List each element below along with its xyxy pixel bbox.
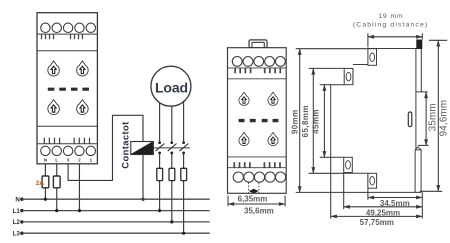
SPD plug-in module indicator 1 — [48, 61, 60, 76]
svg-text:L1: L1 — [13, 208, 21, 215]
front view top comb teeth — [235, 68, 280, 73]
svg-text:L3: L3 — [13, 231, 21, 238]
svg-text:57,75mm: 57,75mm — [360, 218, 394, 227]
front view bottom comb teeth — [234, 162, 280, 167]
SPD upper section divider — [37, 50, 97, 52]
front view indicator 1 — [239, 92, 249, 105]
fuse F1 2A — [42, 176, 49, 188]
SPD plug-in module indicator 4 — [77, 100, 89, 115]
wire contactor coil to bus N — [142, 155, 144, 200]
svg-text:94,6mm: 94,6mm — [439, 100, 450, 137]
front view lower divider — [228, 156, 287, 158]
dimension 45mm — [320, 85, 331, 158]
side view terminal block 1 — [368, 49, 377, 66]
bus L3 — [13, 231, 210, 238]
junction switch3-L3 — [182, 232, 185, 235]
dimension 35mm — [418, 92, 429, 145]
SPD bottom busbar comb teeth — [44, 138, 89, 144]
front view indicator 4 — [268, 132, 278, 145]
DIN latch slot — [408, 112, 412, 127]
SPD bottom terminal shelf line — [37, 143, 97, 145]
bus L1 — [13, 208, 210, 215]
dimension 90mm — [296, 49, 368, 193]
front view bottom terminal circles — [233, 172, 286, 182]
SPD status window dashes — [48, 88, 89, 91]
front view top shelf line — [228, 67, 287, 69]
svg-text:6,35mm: 6,35mm — [238, 195, 268, 204]
pitch marker diamond — [249, 189, 259, 194]
SPD bottom terminal circles — [41, 146, 96, 155]
side view terminal block 3 — [368, 173, 377, 188]
junction coil-N — [141, 198, 144, 201]
svg-text:65,8mm: 65,8mm — [301, 105, 310, 137]
svg-text:N: N — [15, 197, 20, 204]
fuse F3 — [157, 168, 163, 180]
front view top terminal circles — [232, 57, 285, 67]
pitch marker dashed lines — [249, 182, 259, 192]
front view indicator 2 — [268, 92, 278, 105]
wire switch 2 to bus L2 — [171, 153, 173, 222]
side view terminal block 2 — [344, 68, 353, 84]
side view outline — [331, 48, 428, 193]
fuse F2 2A — [53, 176, 60, 188]
contactor coil K1 — [131, 142, 154, 155]
SPD lower section divider — [37, 125, 97, 127]
dimension 35,6mm — [228, 196, 285, 207]
svg-text:Contactot: Contactot — [120, 121, 131, 168]
fuse F4 — [169, 168, 175, 180]
wire N terminal to bus N — [44, 164, 46, 199]
svg-text:90mm: 90mm — [290, 109, 299, 134]
svg-text:L: L — [55, 157, 58, 162]
dimension 65,8mm — [309, 68, 345, 173]
DIN rail clamp (black) — [416, 40, 422, 49]
wire terminal 2 to bus L1 — [78, 164, 80, 211]
wire load phase 2 — [171, 106, 173, 142]
side view terminal block 4 — [344, 157, 353, 172]
svg-text:2A: 2A — [36, 180, 45, 187]
front view status dashes — [239, 119, 279, 122]
svg-text:45mm: 45mm — [312, 109, 321, 134]
svg-text:35,6mm: 35,6mm — [244, 207, 274, 216]
front view indicator 3 — [239, 132, 249, 145]
SPD top busbar comb teeth — [42, 34, 83, 39]
wire L terminal to bus L1 — [56, 164, 58, 211]
SPD top terminal circles — [41, 23, 96, 32]
wire switch 3 to bus L3 — [183, 153, 185, 233]
dimension 19 mm — [368, 33, 422, 47]
wire switch 1 to bus L1 — [159, 153, 161, 211]
SPD plug-in module indicator 2 — [77, 61, 89, 76]
svg-text:Load: Load — [155, 80, 188, 96]
contact switch 3 — [180, 141, 189, 154]
dimension 49,25mm — [344, 173, 423, 209]
front view body — [228, 48, 287, 194]
svg-text:19 mm: 19 mm — [378, 13, 403, 20]
SPD plug-in module indicator 3 — [48, 100, 60, 115]
contactor mechanical linkage — [153, 147, 190, 149]
junction switch1-L1 — [158, 209, 161, 212]
SPD top terminal shelf line — [37, 33, 97, 35]
dimension 34,5mm — [368, 192, 422, 218]
bus N — [15, 197, 209, 204]
contact switch 1 — [156, 141, 165, 154]
svg-text:N: N — [44, 157, 47, 162]
svg-text:(Cabling distance): (Cabling distance) — [353, 21, 428, 28]
contact switch 2 — [168, 141, 177, 154]
SPD device body — [37, 13, 97, 164]
dimension 57,75mm — [331, 157, 423, 218]
front view upper divider — [228, 78, 287, 80]
front view DIN clip tab — [249, 40, 267, 48]
svg-text:35mm: 35mm — [428, 103, 439, 131]
junction N wire — [44, 198, 47, 201]
junction terminal 2 wire — [78, 209, 81, 212]
junction switch2-L2 — [170, 220, 173, 223]
load M1 circle — [151, 66, 191, 106]
wire terminal 3 to contactor coil — [68, 115, 143, 180]
dimension 94,6mm — [420, 40, 448, 191]
junction L wire — [55, 209, 58, 212]
wire load phase 1 — [159, 102, 161, 141]
SPD terminal labels N L 3 2 1 — [44, 157, 93, 162]
front view bottom shelf line — [228, 167, 287, 169]
svg-text:L2: L2 — [13, 219, 21, 226]
fuse F5 — [181, 168, 187, 180]
wire load phase 3 — [183, 101, 185, 142]
bus L2 — [13, 219, 210, 226]
